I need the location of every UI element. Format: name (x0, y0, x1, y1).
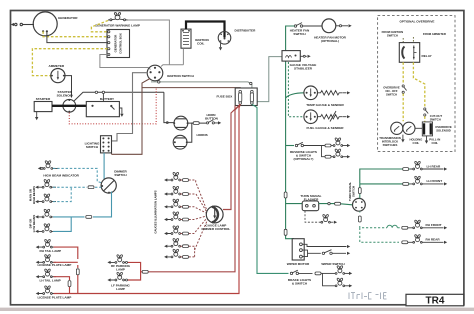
wire: license 1 to feed (red) (54, 262, 78, 268)
wire: solenoid red dotted (69, 88, 156, 124)
svg-text:CONTROL BOX: CONTROL BOX (119, 33, 123, 54)
svg-text:STABILIZER: STABILIZER (294, 66, 313, 70)
svg-text:RH FRONT: RH FRONT (426, 223, 442, 227)
lh rear lamp (413, 161, 422, 169)
lf parking lamp (115, 272, 124, 280)
wire: wiper motor top to chassis (302, 244, 346, 246)
wire: control box to ignition switch (gray) (100, 55, 151, 70)
battery cable (thick) (52, 105, 86, 107)
rh front lamp (413, 220, 422, 228)
brake light switch (290, 272, 292, 274)
ground (interlock) (402, 135, 404, 140)
wire: solenoid to ignition feed (74, 92, 164, 101)
wire: interlock to solenoid (415, 127, 422, 129)
svg-text:BATTERY: BATTERY (100, 97, 115, 101)
svg-text:LH TAIL LAMP: LH TAIL LAMP (40, 279, 61, 283)
wire: feed to lighting switch lower terminal (maroon) (112, 88, 143, 155)
optional overdrive dashed box (378, 16, 455, 152)
wire: flasher to turn switch (319, 204, 353, 205)
svg-text:STARTER: STARTER (36, 97, 51, 101)
wire: lh tail down (red) (54, 277, 70, 280)
svg-text:SWITCH: SWITCH (387, 34, 398, 38)
svg-text:FUSE BOX: FUSE BOX (217, 95, 234, 99)
lh front lamp (413, 176, 422, 184)
svg-text:LH FRONT: LH FRONT (427, 179, 443, 183)
title block (406, 294, 464, 306)
ground (solenoid) (426, 136, 428, 141)
svg-text:HIGH BEAM INDICATOR: HIGH BEAM INDICATOR (43, 174, 79, 178)
reverse lights and switch (286, 145, 294, 147)
lh tail lamp (43, 269, 52, 277)
svg-text:FUEL GAUGE & SENDER: FUEL GAUGE & SENDER (306, 126, 344, 130)
svg-text:(OPTIONAL?): (OPTIONAL?) (294, 157, 314, 161)
svg-text:HIGH BEAMS: HIGH BEAMS (32, 186, 36, 204)
svg-text:GENERATOR: GENERATOR (58, 16, 78, 20)
wire: rh tail to feed (red) (54, 247, 78, 259)
wire: license row to fuse (red) (54, 106, 240, 294)
svg-text:BUTTON: BUTTON (205, 117, 219, 121)
license plate lamp 1 (43, 255, 52, 263)
generator control box (107, 30, 130, 58)
svg-text:GENERATOR: GENERATOR (114, 35, 118, 53)
svg-text:WIPER SWITCH: WIPER SWITCH (321, 262, 345, 266)
headlamp low beams (42, 209, 51, 217)
turn signal switch (353, 198, 366, 211)
horn button (189, 122, 207, 124)
horns (173, 116, 188, 149)
ground (starter) (36, 112, 38, 117)
svg-text:LICENSE PLATE LAMP: LICENSE PLATE LAMP (38, 295, 72, 299)
fuse teal feed down (252, 104, 289, 273)
wire: turn switch down to RH lamps (green dashed) (360, 211, 400, 242)
svg-text:RH REAR: RH REAR (426, 238, 441, 242)
generator (15, 12, 58, 36)
overdrive solenoid (422, 122, 432, 136)
wire: battery to solenoid line (102, 94, 104, 102)
wire: ignition accessory feed (gray) (151, 82, 252, 91)
rh rear lamp (413, 235, 422, 243)
bottom scan band (0, 308, 474, 311)
wire: generator D to control box (yellow dashed) (43, 31, 107, 36)
fuse box (217, 88, 258, 106)
dimmer switch (101, 178, 116, 193)
svg-text:SOLENOID: SOLENOID (57, 93, 74, 97)
svg-text:(OPTIONAL): (OPTIONAL) (321, 39, 339, 43)
wire: ammeter feed (yellow dashed) (32, 49, 107, 76)
svg-text:WIPER MOTOR: WIPER MOTOR (287, 262, 310, 266)
wire: lf parking (red) (128, 272, 141, 280)
gauge lamp dimmer control (206, 206, 223, 223)
lighting switch (85, 136, 112, 153)
svg-text:COIL: COIL (197, 42, 205, 46)
battery (86, 97, 119, 117)
svg-text:DISTRIBUTER: DISTRIBUTER (235, 29, 257, 33)
svg-text:SWITCH: SWITCH (352, 186, 356, 197)
distributor (218, 32, 231, 45)
ground (distributor) (220, 43, 222, 47)
svg-text:LAMP: LAMP (116, 268, 125, 272)
svg-text:SWITCHES: SWITCHES (383, 143, 398, 147)
svg-text:LICENSE PLATE LAMP: LICENSE PLATE LAMP (38, 263, 72, 267)
svg-text:LAMP: LAMP (116, 287, 125, 291)
wire: coil to distributor (thick) (186, 22, 225, 38)
wiper motor (292, 239, 304, 260)
wire: lower horn to upper (187, 123, 193, 142)
heater fan switch (294, 25, 296, 27)
svg-text:RH TAIL LAMP: RH TAIL LAMP (40, 249, 62, 253)
wire: warning lamp to control box (yellow dashed) (91, 21, 108, 32)
svg-text:SWITCH: SWITCH (86, 145, 99, 149)
rh tail lamp (43, 240, 52, 248)
svg-text:IGNITION SWITCH: IGNITION SWITCH (167, 74, 195, 78)
license plate lamp 2 (43, 286, 52, 294)
wire: generator F to control box (dark) (47, 31, 108, 42)
svg-text:LH REAR: LH REAR (427, 164, 442, 168)
ground (battery) (119, 108, 122, 114)
svg-text:& SWITCH: & SWITCH (292, 282, 308, 286)
overdrive on-off switch (yellow) (402, 62, 404, 84)
wire: parking feed to fuse (red) (148, 106, 235, 272)
brake lamps (321, 272, 335, 274)
wire: horns feed (164, 92, 174, 122)
wires: gauge lamps to dimmer control (dark red dashed) (180, 180, 207, 257)
starter (34, 97, 52, 112)
svg-text:COIL: COIL (431, 141, 438, 145)
wire: high beams to dimmer (teal dashed) (53, 186, 101, 188)
temp gauge and sender (286, 93, 304, 98)
svg-text:FLASHER: FLASHER (304, 198, 319, 202)
gauge illumination lamps (171, 172, 180, 257)
wires into relay (403, 37, 413, 43)
svg-text:SWITCH: SWITCH (386, 92, 397, 96)
svg-text:AMMETER: AMMETER (49, 64, 65, 68)
turn signal flasher (286, 203, 302, 205)
svg-text:TR4: TR4 (426, 295, 445, 306)
wiper switch (302, 250, 321, 257)
wire: fuse to dimmer control (red) (223, 104, 240, 209)
wire: ignition switch to lighting switch (maroon) (112, 73, 148, 141)
svg-text:COIL: COIL (413, 141, 420, 145)
gauge voltage stabilizer (282, 51, 300, 62)
wire: rf parking (red) (128, 262, 142, 271)
svg-text:OPTIONAL OVERDRIVE: OPTIONAL OVERDRIVE (399, 19, 434, 23)
svg-text:SWITCH: SWITCH (114, 173, 127, 177)
svg-text:TEMP GAUGE & SENDER: TEMP GAUGE & SENDER (306, 103, 344, 107)
signature logo (349, 293, 387, 300)
wire: ammeter to solenoid (65, 76, 72, 98)
svg-text:SWITCH: SWITCH (430, 117, 441, 121)
relay (399, 43, 419, 63)
svg-text:FROM AMMETER: FROM AMMETER (423, 32, 446, 36)
ignition coil (181, 29, 210, 48)
generator warning lamp (108, 13, 128, 21)
svg-text:RELAY: RELAY (422, 54, 433, 58)
wire: low beams to dimmer (teal) (53, 192, 112, 217)
heater fan motor (322, 19, 336, 33)
ignition switch (147, 65, 163, 81)
wire: lighting switch to dimmer (teal) (103, 153, 105, 180)
svg-text:LOW BEAMS: LOW BEAMS (32, 215, 36, 233)
wire: right fuse bottom to voltage stabilizer (gray) (254, 57, 283, 104)
overdrive cut-out line (yellow) (413, 62, 424, 107)
headlamp high beams (42, 180, 51, 188)
wire: warning lamp to coil (gray) (128, 20, 184, 67)
svg-text:DIMMER CONTROL: DIMMER CONTROL (202, 227, 231, 231)
generator terminals (42, 30, 44, 32)
turn flasher dash lamp (305, 211, 321, 223)
svg-text:SOLENOID: SOLENOID (436, 129, 451, 133)
fuel gauge and sender (288, 62, 304, 117)
wire: ignition to fuse feed (142, 79, 240, 92)
wire: turn switch up to LH lamps (green) (360, 169, 410, 198)
rf parking lamp (115, 255, 124, 263)
transmission interlock switches (391, 122, 403, 134)
wire: green main feed (286, 26, 295, 239)
ammeter (51, 69, 65, 83)
high beam indicator lamp (43, 161, 52, 169)
wire: indicator to dimmer (teal dashed) (53, 168, 103, 183)
starter solenoid (63, 99, 76, 112)
svg-text:GAUGES ILLUMINATION LAMPS: GAUGES ILLUMINATION LAMPS (154, 190, 158, 233)
svg-text:HORNS: HORNS (197, 133, 208, 137)
svg-text:SWITCH: SWITCH (293, 32, 306, 36)
svg-text:GENERATOR WARNING LAMP: GENERATOR WARNING LAMP (95, 24, 140, 28)
